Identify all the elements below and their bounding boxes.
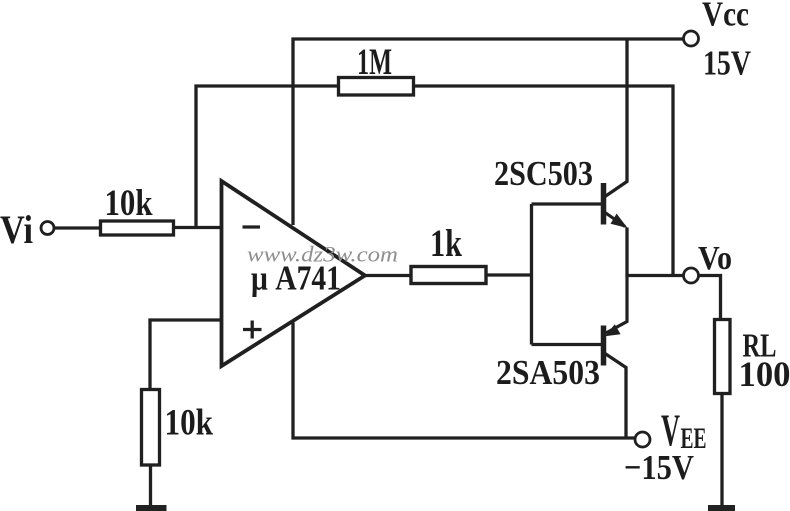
wire non-inverting input	[150, 320, 222, 390]
wire node A up to feedback	[196, 86, 339, 228]
transistor Q1 2SC503 base bar	[601, 183, 607, 225]
svg-text:−15V: −15V	[624, 448, 694, 487]
wire Vi to R1	[55, 226, 102, 229]
wire R3 to ground	[149, 465, 152, 506]
wire RL to ground	[720, 394, 723, 507]
svg-text:www.dz3w.com: www.dz3w.com	[247, 242, 398, 267]
svg-text:15V: 15V	[703, 44, 751, 83]
svg-text:100: 100	[739, 354, 790, 394]
op-amp inverting input marker	[243, 225, 261, 228]
wire 1k to bases	[486, 273, 532, 276]
svg-text:Vo: Vo	[698, 240, 732, 277]
resistor R4 1k	[411, 267, 486, 284]
resistor R1 10k (input)	[101, 221, 174, 235]
wire Vcc rail	[293, 39, 684, 225]
transistor Q1 emitter with arrow	[605, 213, 625, 227]
op-amp U1 triangle	[222, 181, 366, 366]
svg-text:10k: 10k	[165, 403, 214, 444]
terminal Vi	[41, 222, 54, 235]
wire op-amp negative supply to VEE rail	[293, 323, 635, 439]
transistor Q2 collector	[605, 354, 626, 439]
wire Vo to RL	[699, 276, 721, 320]
svg-text:2SA503: 2SA503	[496, 353, 600, 392]
svg-text:Vcc: Vcc	[702, 0, 749, 34]
svg-text:1M: 1M	[357, 42, 392, 83]
svg-text:2SC503: 2SC503	[494, 154, 593, 193]
resistor R2 1M (feedback)	[339, 78, 414, 96]
resistor RL 100	[715, 320, 731, 394]
wire R1 to inverting input	[174, 226, 222, 229]
svg-text:10k: 10k	[105, 183, 153, 224]
op-amp non-inverting input marker	[243, 328, 262, 331]
wire Q2 base	[532, 343, 602, 346]
svg-text:Vi: Vi	[0, 207, 33, 252]
terminal VEE	[635, 432, 650, 447]
terminal Vo	[684, 268, 699, 283]
resistor R3 10k (to ground)	[142, 390, 160, 466]
wire Vo node	[627, 274, 684, 277]
ground (left)	[136, 505, 167, 511]
wire base tie line	[530, 204, 533, 345]
ground (right)	[708, 505, 735, 511]
transistor Q1 collector	[605, 39, 627, 197]
svg-text:1k: 1k	[430, 222, 462, 265]
transistor Q2 2SA503 emitter with arrow	[606, 276, 627, 334]
wire op-amp output	[365, 274, 411, 277]
transistor Q2 2SA503 base bar	[601, 326, 607, 366]
wire 1M to output node	[414, 86, 674, 276]
terminal Vcc	[684, 31, 699, 46]
wire Q1 base	[532, 202, 602, 205]
